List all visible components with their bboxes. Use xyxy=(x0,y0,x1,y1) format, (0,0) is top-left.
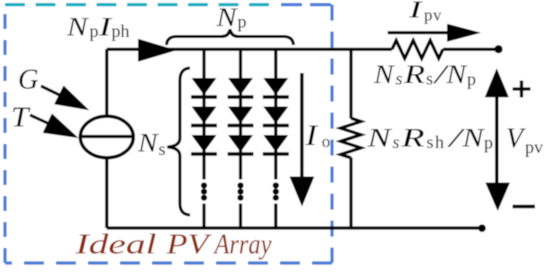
diode D3b xyxy=(263,107,289,126)
svg-text:pv: pv xyxy=(525,137,543,157)
diode D3c xyxy=(263,135,289,154)
wire shunt branch bottom xyxy=(349,158,352,229)
label NsRsh/Np (shunt resistor) xyxy=(366,123,493,152)
diode string 3 wire xyxy=(274,49,277,228)
svg-text:N: N xyxy=(137,129,159,158)
svg-text:N: N xyxy=(445,60,467,89)
arrow T (temperature input) xyxy=(30,114,79,139)
diode D3a xyxy=(263,78,289,97)
diode D1a xyxy=(191,78,217,97)
wire current source top xyxy=(105,49,108,117)
svg-text:Ideal: Ideal xyxy=(74,229,156,261)
svg-text:sh: sh xyxy=(427,132,446,152)
dashed box border left xyxy=(3,5,6,263)
svg-text:R: R xyxy=(403,60,425,89)
wire current source bottom xyxy=(105,158,108,229)
diode D2c xyxy=(228,135,254,154)
current source I1 xyxy=(80,116,133,158)
wire top horizontal xyxy=(107,48,392,51)
ellipsis dots string 1 xyxy=(201,182,207,200)
svg-text:p: p xyxy=(90,21,99,41)
wire top horizontal right of Rs xyxy=(443,48,499,51)
diode D1c xyxy=(191,135,217,154)
diode string 2 wire xyxy=(239,49,242,228)
resistor Rsh (shunt) zigzag xyxy=(341,118,362,158)
svg-text:pv: pv xyxy=(424,6,442,25)
svg-text:s: s xyxy=(159,139,166,159)
dashed box border top right (blue segment) xyxy=(281,3,332,6)
svg-text:s: s xyxy=(396,69,403,89)
dashed box border top (teal segment) xyxy=(5,3,272,6)
svg-text:s: s xyxy=(393,132,400,152)
svg-text:Array: Array xyxy=(213,229,272,261)
arrow I_o (diode current) xyxy=(290,73,315,207)
svg-text:N: N xyxy=(461,123,485,152)
ellipsis dots string 3 xyxy=(273,182,279,200)
arrow I_pv xyxy=(388,24,481,42)
svg-text:p: p xyxy=(467,69,476,89)
svg-text:V: V xyxy=(506,124,526,155)
wire bottom rail xyxy=(107,226,482,229)
dashed box border right xyxy=(330,5,333,263)
plus sign xyxy=(513,81,531,98)
diode D2b xyxy=(228,107,254,126)
diode D1b xyxy=(191,107,217,126)
brace N_p over diode strings xyxy=(167,30,294,46)
brace N_s left of diode strings xyxy=(167,68,190,215)
svg-text:R: R xyxy=(400,123,425,152)
svg-text:N: N xyxy=(215,3,238,32)
label N_p (above brace) xyxy=(215,3,246,32)
node dot top right terminal xyxy=(494,45,502,53)
svg-text:G: G xyxy=(18,64,39,95)
node dot bottom right terminal xyxy=(478,224,486,232)
photocurrent flow arrow on top wire xyxy=(138,39,177,62)
svg-text:p: p xyxy=(238,12,247,32)
svg-text:s: s xyxy=(426,69,433,89)
svg-text:N: N xyxy=(66,12,90,41)
wire shunt branch top xyxy=(349,49,352,118)
svg-text:o: o xyxy=(322,132,331,151)
label I_o xyxy=(304,119,330,152)
label N_p I_ph xyxy=(66,12,130,41)
label NsRs/Np (series resistor) xyxy=(373,60,476,89)
V_pv double-headed arrow xyxy=(485,68,510,211)
resistor Rs (series) zigzag xyxy=(392,40,443,58)
svg-text:N: N xyxy=(366,123,393,152)
label Ideal PV Array xyxy=(74,229,271,261)
label N_s xyxy=(137,129,166,160)
svg-text:T: T xyxy=(11,102,31,134)
diode string 1 wire xyxy=(202,49,205,228)
label V_pv xyxy=(506,124,543,158)
dashed box border bottom xyxy=(5,261,332,264)
minus sign xyxy=(513,205,536,208)
svg-text:PV: PV xyxy=(165,229,212,261)
label I_pv xyxy=(407,0,442,25)
ellipsis dots string 2 xyxy=(237,182,243,200)
svg-text:p: p xyxy=(484,132,493,152)
diode D2a xyxy=(228,78,254,97)
svg-text:I: I xyxy=(407,0,423,24)
arrow G (irradiance input) xyxy=(41,86,89,111)
svg-text:N: N xyxy=(373,60,395,89)
svg-text:ph: ph xyxy=(112,21,130,41)
